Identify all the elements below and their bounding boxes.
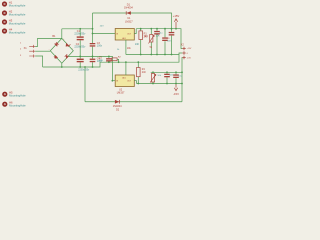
junctions on plus raw rail	[79, 28, 93, 34]
diode D2	[115, 100, 120, 104]
bridge diode NE	[66, 43, 71, 47]
wire +out rail y28.7	[136, 29, 182, 49]
junction at LM337 input	[112, 80, 114, 82]
svg-text:MountingHole: MountingHole	[9, 31, 26, 35]
wire LM337 output step	[134, 81, 136, 84]
capacitor C4 plates	[90, 59, 96, 63]
capacitor C3 plates	[90, 43, 96, 47]
connector X2 pins	[182, 47, 185, 59]
svg-text:2200u/35v: 2200u/35v	[78, 70, 90, 72]
trimmer R5 leads	[152, 72, 154, 83]
trimmer R5 body	[151, 74, 154, 83]
capacitor C10 plates	[164, 74, 170, 78]
IC U2 pin labels	[116, 76, 132, 82]
IC U1 LM317 body	[115, 29, 134, 41]
bridge diode SW	[54, 55, 58, 59]
capacitor C4 leads	[92, 56, 94, 67]
trimmer R3 arrow	[148, 35, 154, 43]
trimmer R5 arrow	[150, 74, 156, 82]
capacitor C12 leads	[175, 72, 177, 83]
wire -out rail y83.5	[137, 83, 183, 85]
mounting hole H2	[2, 9, 26, 16]
wire AC2 from X1-2 to bridge left	[35, 50, 50, 52]
wire mid line y72.3	[151, 71, 182, 73]
resistor R4 body	[137, 68, 141, 77]
bridge rectifier B1 body	[50, 38, 73, 63]
svg-text:MountingHole: MountingHole	[9, 104, 26, 108]
wire AC1 from X1-1 to bridge top	[35, 38, 62, 46]
svg-text:2200u/35v: 2200u/35v	[74, 33, 86, 35]
svg-text:+15V: +15V	[173, 14, 180, 18]
wire CT from X1-3 to ground rail	[35, 56, 42, 67]
wire bridge plus stub up	[61, 29, 63, 39]
bridge diode NW	[54, 42, 59, 47]
capacitor C1 plates	[77, 36, 84, 40]
resistor R1 leads	[140, 29, 142, 55]
svg-text:2200u/35v: 2200u/35v	[74, 47, 86, 49]
wire adj line y54.5	[126, 54, 179, 56]
mounting hole H4	[2, 27, 26, 34]
wire diode top line y13	[93, 13, 172, 29]
wire LM317 output up to +out rail	[134, 29, 136, 34]
svg-text:MountingHole: MountingHole	[9, 4, 26, 8]
mounting hole H1	[2, 0, 26, 7]
wire X2 minus riser x182	[181, 58, 183, 102]
svg-text:10u: 10u	[99, 59, 104, 62]
resistor R2 leads	[117, 59, 119, 62]
resistor R4 leads	[137, 62, 139, 83]
capacitor C1 leads	[79, 29, 81, 57]
junctions on adj line	[140, 54, 173, 56]
svg-text:LM337: LM337	[117, 92, 125, 95]
junctions on ground rail	[61, 61, 139, 68]
svg-text:MountingHole: MountingHole	[9, 22, 26, 26]
capacitor C7 leads	[156, 29, 158, 55]
capacitor C11 leads	[171, 29, 173, 55]
wire LM337 protection riser x85	[84, 67, 86, 102]
wire bridge minus stub down	[61, 63, 63, 67]
capacitor C12 plates	[173, 74, 179, 78]
IC U2 LM337 body	[115, 75, 134, 87]
supply -15V symbol	[174, 84, 177, 91]
diode D1	[126, 11, 131, 15]
resistor R2 body	[112, 58, 117, 61]
bridge diode SE	[65, 54, 69, 59]
svg-text:LM317: LM317	[125, 20, 133, 23]
wire LM317 adj riser	[125, 40, 127, 55]
trimmer R3 leads	[150, 29, 152, 55]
junctions on mid line	[152, 71, 183, 73]
svg-text:1N4004: 1N4004	[124, 7, 133, 10]
svg-text:MountingHole: MountingHole	[9, 13, 26, 17]
connector X2 pin labels	[187, 48, 192, 59]
wire LM317 input	[93, 33, 116, 35]
junctions on minus raw rail	[79, 56, 110, 58]
svg-text:MountingHole: MountingHole	[9, 94, 26, 98]
wire main node column x92.5 lower	[92, 47, 94, 57]
capacitor C5 leads	[108, 56, 110, 62]
wire main node column x92.5 upper	[92, 13, 94, 43]
svg-text:ADJ: ADJ	[122, 37, 126, 40]
mounting hole H5	[2, 91, 26, 98]
capacitor C9 leads	[164, 29, 166, 55]
capacitor C10 leads	[166, 72, 168, 83]
svg-text:ADJ: ADJ	[122, 76, 126, 79]
wire plus raw rail y28.8	[62, 28, 93, 30]
capacitor C9 plates	[162, 37, 168, 41]
connector X1 pins	[29, 45, 35, 58]
svg-text:-15V: -15V	[173, 92, 179, 96]
junctions on +out rail	[140, 28, 177, 30]
resistor R1 body	[139, 31, 143, 40]
connector X1 pin numbers	[20, 42, 22, 56]
mounting hole H6	[2, 101, 26, 108]
capacitor C11 plates	[169, 32, 175, 36]
svg-text:+15V: +15V	[187, 48, 192, 50]
capacitor C2 plates	[77, 59, 84, 63]
wire minus raw rail y56.4	[68, 56, 115, 80]
supply +15V symbol	[174, 19, 177, 29]
wire diode bottom line y101.75	[85, 101, 182, 103]
wire ground rail y64.3	[43, 53, 183, 67]
svg-text:X2: X2	[181, 42, 185, 46]
trimmer R3 body	[150, 35, 153, 43]
svg-text:24V: 24V	[100, 26, 104, 28]
capacitor C2 leads	[79, 56, 81, 67]
capacitor C7 plates	[154, 31, 160, 35]
capacitor C5 plates	[106, 58, 112, 61]
mounting hole H3	[2, 18, 26, 25]
svg-text:100n: 100n	[97, 45, 103, 48]
IC U1 pin labels	[116, 33, 132, 40]
svg-text:0: 0	[187, 53, 188, 55]
wire LM337 adj riser	[125, 62, 127, 75]
junctions on -out rail	[137, 83, 183, 85]
